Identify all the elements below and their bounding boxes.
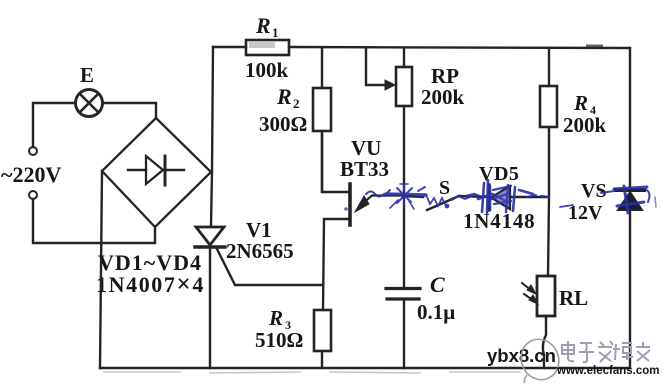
wire VS to bottom rail — [629, 210, 631, 368]
resistor R2 — [313, 88, 331, 131]
bridge rectifier VD1-VD4 diamond — [102, 118, 211, 227]
label R3 value — [255, 328, 303, 352]
wire lamp left to AC terminal 1 — [33, 103, 75, 147]
label 2N6565 — [226, 239, 294, 263]
terminal AC2 — [29, 191, 37, 199]
svg-text:2: 2 — [293, 96, 300, 111]
svg-text:VS: VS — [581, 180, 607, 202]
svg-text:R: R — [255, 13, 271, 38]
potentiometer RP body — [396, 67, 412, 106]
svg-text:www.elecfans.com: www.elecfans.com — [556, 365, 659, 377]
svg-text:100k: 100k — [245, 58, 289, 82]
UJT VU base bar — [348, 184, 352, 225]
wire R4 to RL node — [548, 127, 549, 276]
watermark url — [556, 365, 659, 377]
wire V1 gate — [217, 249, 323, 285]
svg-text:200k: 200k — [563, 113, 607, 137]
label VD5 — [479, 163, 519, 185]
zener diode VS — [616, 190, 644, 210]
svg-text:BT33: BT33 — [340, 157, 389, 181]
wire C to bottom rail — [403, 299, 405, 368]
label BT33 — [340, 157, 389, 181]
label RP — [431, 64, 459, 88]
svg-text:R: R — [268, 306, 283, 330]
wire R3 to bottom rail — [321, 351, 323, 368]
label VD1~VD4 — [98, 250, 202, 275]
wire UJT B1 to R3 — [323, 219, 350, 310]
wire cathode to bottom rail — [209, 248, 211, 368]
watermark pen swoosh ellipse — [515, 333, 565, 386]
wire top rail left segment — [213, 46, 246, 48]
watermark logo glyphs — [562, 341, 650, 362]
wire RP to capacitor — [403, 106, 405, 287]
label ~220V — [1, 162, 61, 187]
resistor R1 — [246, 40, 289, 55]
svg-text:E: E — [80, 63, 94, 87]
bridge diode symbol — [128, 156, 184, 185]
svg-text:VD5: VD5 — [479, 163, 519, 185]
resistor R3 — [314, 310, 331, 351]
label R2 — [276, 84, 300, 111]
blue ink scribble across middle — [344, 180, 656, 213]
capacitor C — [386, 289, 420, 300]
wire VS branch from rail — [629, 48, 631, 188]
svg-text:1N4007×4: 1N4007×4 — [96, 271, 205, 298]
photoresistor RL — [537, 276, 555, 316]
resistor R4 — [540, 86, 557, 127]
label 12V — [568, 202, 603, 224]
svg-text:200k: 200k — [421, 85, 465, 109]
svg-text:R: R — [573, 91, 588, 115]
wire AC terminal 2 to bridge bottom vertex — [33, 199, 155, 243]
svg-text:1N4148: 1N4148 — [463, 209, 535, 233]
diode VD5 — [489, 185, 548, 210]
label E — [80, 63, 94, 87]
label C value — [417, 300, 455, 324]
label R2 value — [259, 112, 307, 136]
svg-text:C: C — [430, 272, 445, 297]
wire R2 to UJT B2 — [322, 131, 348, 192]
wire RP branch from rail — [403, 48, 405, 67]
label VS — [581, 180, 607, 202]
wire emitter node to switch — [404, 196, 423, 197]
label RL — [559, 286, 588, 310]
switch S — [427, 196, 487, 210]
thyristor V1 — [195, 227, 225, 247]
svg-text:0.1μ: 0.1μ — [417, 300, 455, 324]
label R1 — [255, 13, 279, 40]
RP wiper arrow — [366, 48, 395, 90]
label 1N4007x4 — [96, 271, 205, 298]
wire top rail right of R1 — [289, 47, 630, 49]
svg-text:RL: RL — [559, 286, 588, 310]
label S — [439, 177, 450, 199]
label R4 — [573, 91, 596, 117]
svg-text:510Ω: 510Ω — [255, 328, 303, 352]
wire lamp right to bridge top vertex — [103, 103, 156, 118]
label R3 — [268, 306, 291, 332]
svg-text:~220V: ~220V — [1, 162, 61, 187]
svg-text:R: R — [276, 84, 292, 109]
label R4 value — [563, 113, 607, 137]
label V1 — [246, 218, 272, 242]
wire bottom rail scan shadow — [104, 372, 520, 373]
wire R4 branch from rail — [548, 48, 550, 86]
bottom rail — [100, 367, 630, 369]
UJT emitter with arrow — [355, 196, 404, 213]
svg-text:S: S — [439, 177, 450, 199]
svg-text:2N6565: 2N6565 — [226, 239, 294, 263]
label R1 value — [245, 58, 289, 82]
lamp E — [76, 90, 103, 117]
RL light arrows — [522, 283, 538, 304]
terminal AC1 — [29, 147, 37, 155]
wire R2 branch from rail — [321, 48, 323, 88]
svg-text:1: 1 — [272, 25, 279, 40]
label 1N4148 — [463, 209, 535, 233]
label RP value — [421, 85, 465, 109]
wire RL to bottom rail — [543, 316, 546, 368]
label C — [430, 272, 445, 297]
watermark ybx8.cn — [487, 345, 556, 366]
wire bridge minus to bottom rail — [100, 171, 102, 368]
wire left main vertical (bridge + to anode) — [211, 47, 213, 226]
svg-text:300Ω: 300Ω — [259, 112, 307, 136]
label VU — [351, 136, 381, 160]
